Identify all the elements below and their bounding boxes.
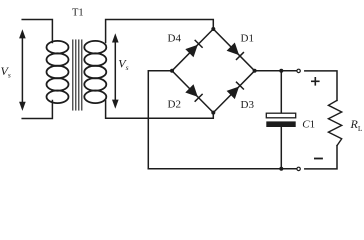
terminal − (open circle) (297, 167, 300, 170)
transformer T1 primary winding (47, 41, 69, 103)
wire secondary top to bridge (106, 20, 214, 43)
wire load to − terminal (305, 146, 337, 169)
diode D1 (227, 43, 240, 56)
diode D3 (227, 87, 240, 100)
node capacitor bottom junction (279, 167, 283, 171)
resistor RL zigzag (328, 100, 341, 145)
bridge diamond wires (172, 29, 255, 113)
voltage arrow Vs secondary (double-headed) (114, 39, 116, 103)
svg-text:D3: D3 (241, 99, 255, 111)
svg-text:D2: D2 (168, 99, 181, 111)
node capacitor top junction (279, 69, 283, 73)
capacitor C1 top plate (hollow) (266, 113, 295, 118)
svg-text:D1: D1 (241, 32, 254, 44)
capacitor C1 top lead (280, 71, 282, 113)
voltage arrow Vs primary (double-headed) (21, 35, 23, 105)
transformer core (73, 40, 82, 110)
wire bottom-left stub (22, 101, 52, 119)
wire bottom rail (148, 168, 297, 170)
node left vertex (170, 69, 174, 73)
transformer T1 secondary winding (84, 41, 106, 103)
wire right vertex to + terminal (255, 70, 297, 72)
diode D2 (185, 84, 198, 97)
capacitor C1 bottom plate (solid) (266, 121, 295, 127)
diode D4 (185, 45, 198, 58)
svg-text:T1: T1 (72, 8, 84, 19)
capacitor C1 bottom lead (280, 127, 282, 169)
label − (315, 158, 322, 160)
wire secondary bottom to bridge bottom vertex (106, 101, 214, 119)
svg-text:C1: C1 (302, 118, 315, 130)
terminal + (open circle) (297, 69, 300, 72)
node bottom vertex (211, 111, 215, 115)
wire top-left stub (22, 20, 52, 43)
svg-text:D4: D4 (168, 32, 182, 44)
node right vertex (253, 69, 257, 73)
label + (312, 78, 319, 85)
node top vertex (211, 27, 215, 31)
wire + terminal to load (305, 71, 337, 101)
wire left vertex to bottom rail (crossover) (148, 71, 172, 169)
